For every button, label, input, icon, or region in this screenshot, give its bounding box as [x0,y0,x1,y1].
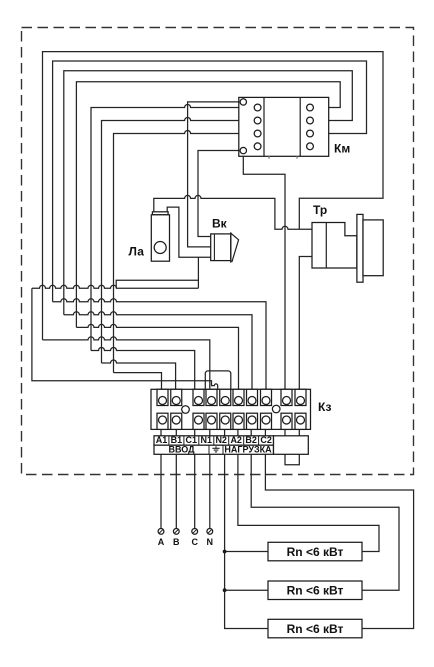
svg-text:B: B [173,537,180,547]
svg-text:Ла: Ла [129,245,145,259]
svg-text:A1: A1 [156,435,168,445]
svg-text:Rn <6 кВт: Rn <6 кВт [287,622,344,636]
svg-text:ВВОД: ВВОД [168,444,195,454]
svg-text:Rn <6 кВт: Rn <6 кВт [287,545,344,559]
svg-text:Кз: Кз [318,400,331,414]
svg-text:N1: N1 [201,435,213,445]
svg-text:Км: Км [334,142,350,156]
svg-text:A: A [158,537,165,547]
svg-text:C: C [191,537,198,547]
svg-text:Rn <6 кВт: Rn <6 кВт [287,584,344,598]
svg-text:Вк: Вк [212,217,228,231]
svg-text:НАГРУЗКА: НАГРУЗКА [224,444,272,454]
svg-text:Тр: Тр [313,203,327,217]
svg-text:N: N [207,537,214,547]
